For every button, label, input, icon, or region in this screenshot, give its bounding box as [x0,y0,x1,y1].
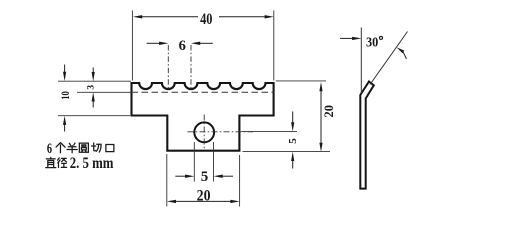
right 20 extension line [276,80,326,82]
dimension 3 [92,68,95,108]
glyph yuan [79,143,88,152]
side view slanted extension line [370,32,408,85]
hole horizontal centerline [188,131,254,133]
svg-text:5: 5 [287,138,299,144]
hidden dashed line depth 3 [132,91,275,93]
notch centerline right [190,45,192,89]
svg-text:5: 5 [201,169,209,185]
hole vertical centerline [203,115,205,151]
bottom 20 extension lines [167,154,240,207]
svg-text:6: 6 [47,141,52,157]
dimension 3 extension line [77,91,132,93]
svg-text:2. 5 mm: 2. 5 mm [70,155,114,172]
svg-text:20: 20 [197,188,211,205]
side view bent strip [360,82,374,189]
dimension 40 [133,15,274,18]
glyph qie [92,143,101,152]
dimension 5 right [291,112,294,169]
right 5 reference lines [242,132,330,152]
dimension 20 right [319,82,322,152]
svg-text:3: 3 [87,85,97,90]
dimension 6 [147,42,213,45]
dimension 10 extension lines [58,81,131,116]
plate outline with 6 semicircular notches [132,83,274,151]
hole [194,122,214,142]
glyph kou [106,145,114,152]
dimension 10 [63,65,66,132]
dimension 40 extension lines [132,11,273,81]
note text line 2: zhi jing 2.5 mm [46,157,67,167]
svg-text:6: 6 [179,38,186,54]
svg-text:30: 30 [366,34,379,49]
angle arrow on slant [397,47,407,59]
glyph ban [67,143,77,153]
svg-text:10: 10 [60,91,72,100]
svg-text:20: 20 [322,105,336,117]
angle arrow horizontal [340,37,361,40]
dimension 20 bottom [167,200,240,203]
dimension 5 bottom [175,175,233,178]
glyph jing [58,158,67,168]
bottom 5 extension lines [194,142,213,182]
side view vertical extension line [360,28,362,94]
notch centerline left [167,45,169,89]
glyph zhi [46,157,56,167]
svg-text:40: 40 [200,11,213,28]
glyph ge [56,143,65,153]
